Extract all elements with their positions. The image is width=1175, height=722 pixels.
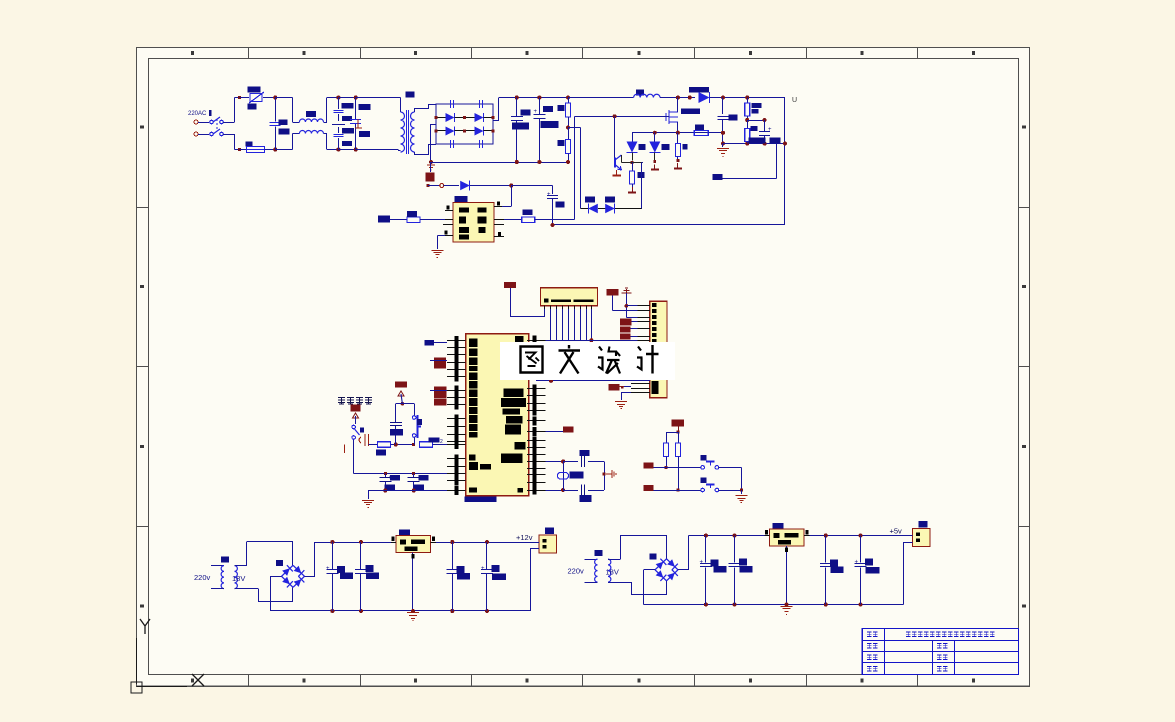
xtal cap C11 — [385, 473, 387, 477]
regulator U body — [399, 530, 410, 537]
MOSFET Q1 — [640, 116, 666, 118]
bridge positive out — [678, 569, 689, 571]
cap C13 — [563, 461, 578, 463]
svg-text:220AC: 220AC — [188, 111, 207, 117]
border reference ticks top/bottom — [248, 48, 250, 59]
top rail to inductor — [568, 97, 634, 99]
wire D8 junction to cap C9 — [511, 185, 552, 187]
svg-text:+12v: +12v — [516, 533, 533, 542]
zener ZD2 — [654, 133, 656, 143]
cap C9 electrolytic — [547, 195, 558, 197]
net label blocks left pins A — [434, 358, 446, 369]
reset cap C10 — [395, 426, 397, 445]
J2 pin name dashes — [652, 303, 657, 307]
caps common vertical — [604, 461, 606, 490]
transformer T1 primary — [401, 112, 405, 152]
MCU left pins — [447, 340, 466, 342]
J2 bottom gnd wire — [621, 392, 631, 394]
U2 ground — [437, 235, 445, 237]
bridge diamond B1 — [655, 559, 667, 570]
MCU left lower blobs — [469, 455, 476, 461]
power flag VCC top — [504, 282, 516, 288]
transformer T label — [595, 550, 603, 556]
svg-text:+: + — [700, 560, 704, 566]
optocoupler U2 label — [455, 196, 468, 203]
border reference ticks left/right — [137, 207, 149, 209]
junction top-left — [238, 96, 241, 99]
svg-text:+: + — [855, 560, 859, 566]
bulk cap C5 — [515, 96, 519, 100]
output rail — [436, 542, 530, 544]
watermark char 设 — [598, 347, 604, 370]
resistor R12 — [676, 443, 681, 457]
bulk cap C6 — [537, 96, 541, 100]
common-mode choke L1 — [292, 98, 294, 123]
bottom rail right section — [723, 143, 785, 145]
sheet border inner frame — [149, 58, 1019, 674]
bridge negative to bottom rail — [431, 124, 436, 126]
title block label 成绩 — [937, 667, 942, 671]
regulator gnd — [411, 609, 415, 613]
wire switch B to fuse node — [223, 134, 235, 136]
U2 pin name blobs — [459, 208, 469, 213]
bridge negative out — [644, 569, 656, 571]
net label right of MCU — [546, 431, 564, 433]
system switch S2 — [352, 425, 356, 429]
regulator U body — [773, 523, 784, 530]
button SW3 — [700, 478, 706, 484]
snubber R3 — [694, 130, 708, 135]
zener ZD1 — [632, 133, 634, 143]
svg-text:220v: 220v — [568, 567, 585, 576]
Q2 collector to zener rail — [621, 155, 623, 163]
mid junction of Y-caps — [332, 124, 345, 126]
bridge label — [276, 560, 283, 566]
switch S1 pole A — [198, 122, 209, 124]
feedback vertical pair — [574, 116, 576, 219]
U2 output resistor R9 — [504, 219, 522, 221]
R1 label — [558, 105, 565, 111]
C6 labels — [543, 106, 553, 112]
transformer secondary — [608, 559, 611, 582]
svg-text:U: U — [792, 97, 797, 104]
snubber C7 — [721, 96, 725, 100]
junction dots mid — [273, 96, 277, 100]
input terminal top — [194, 120, 198, 124]
regulator pins — [391, 542, 396, 544]
transformer T1 label — [406, 92, 415, 98]
watermark char 图 — [521, 347, 543, 373]
MCU center text blobs — [504, 389, 524, 398]
junction bottom-left — [238, 148, 241, 151]
watermark char 计 — [637, 347, 643, 370]
transistor Q2 — [614, 116, 616, 157]
small gnd right — [606, 470, 616, 478]
out cap 2 — [859, 534, 863, 538]
C2 label — [342, 103, 354, 109]
cap C smoothing 1 — [704, 534, 708, 538]
svg-text:+: + — [768, 127, 772, 133]
watermark white band — [500, 342, 675, 380]
bridge diamond B1 — [282, 565, 294, 576]
power flag system — [351, 405, 361, 412]
reset gnd cap mark — [365, 434, 369, 446]
diode D5 label — [689, 87, 709, 93]
net label blocks left pins B — [434, 387, 447, 399]
bleeder R2 — [566, 126, 570, 130]
cap C14 — [563, 490, 578, 492]
C4 ground mark — [355, 119, 362, 128]
polygon block dark red — [426, 173, 435, 182]
net label blocks right cluster — [620, 319, 632, 326]
reset resistor R10 — [369, 444, 378, 446]
title block label 班级 — [867, 655, 872, 659]
Q2 emitter gnd — [616, 170, 618, 175]
transformer T label — [221, 557, 229, 563]
svg-text:+: + — [534, 109, 538, 115]
xtal gnd — [362, 500, 374, 502]
Y-capacitor C3 bottom — [336, 148, 340, 152]
net label on top-left pin — [425, 340, 435, 346]
C3 label — [342, 128, 354, 134]
J2 pins left side — [638, 305, 650, 307]
bridge snubber caps — [450, 100, 452, 108]
cap C smoothing 2 — [733, 534, 737, 538]
bridge diode D2 — [475, 113, 484, 122]
title block title text — [906, 632, 911, 636]
svg-text:+: + — [547, 192, 551, 198]
secondary loop top — [620, 535, 622, 559]
xtal circuit right: vertical link — [546, 461, 564, 463]
crystal Y1 — [558, 473, 569, 480]
xtal lower wire — [383, 489, 387, 493]
wire secondary to bridge — [414, 109, 416, 112]
title block label 姓名 — [867, 644, 872, 648]
secondary loop bottom — [631, 582, 633, 595]
switch S1 pole B — [198, 134, 209, 136]
common-mode choke L1 label — [306, 111, 316, 117]
wire switch to varistor node — [223, 122, 235, 124]
reset button SW1 — [402, 403, 414, 405]
diode pair right link — [641, 163, 643, 209]
feedback tap label — [712, 174, 722, 180]
svg-text:18V: 18V — [232, 574, 245, 583]
bridge diode D3 — [446, 127, 455, 136]
out cap 2 — [485, 540, 489, 544]
switch link dashed — [216, 119, 218, 131]
J1 wires down — [550, 309, 552, 340]
connector wires — [904, 535, 913, 537]
wires to connector top pins — [626, 305, 637, 307]
secondary loop top — [246, 542, 248, 566]
D8 to opto pin — [511, 186, 513, 207]
resistor R11 — [664, 443, 669, 457]
J2 lower pins — [631, 383, 650, 385]
MCU pin name blobs left column — [469, 339, 478, 348]
xtal cap C12 — [413, 473, 415, 477]
transformer T1 core — [406, 110, 408, 154]
J1 pin text — [544, 299, 549, 303]
negative rail — [644, 604, 904, 606]
opto feed from bottom rail — [430, 162, 432, 172]
bridge internal rails — [436, 117, 446, 119]
feedback rail mid — [632, 132, 723, 134]
varistor RV1 — [240, 97, 249, 99]
positive rail — [689, 535, 770, 537]
R9 label — [523, 210, 533, 216]
R2 label — [558, 140, 565, 146]
feedback line from U — [552, 224, 786, 226]
bus wire upper — [589, 338, 593, 342]
output connector — [919, 521, 928, 528]
top connector J1 body — [541, 288, 598, 306]
transformer secondary — [235, 566, 238, 589]
bridge rectifier outline — [436, 104, 493, 144]
bridge positive out — [305, 576, 316, 578]
Y-capacitor C2 top — [336, 96, 340, 100]
MCU U3 body — [466, 334, 529, 496]
divider R5 — [745, 118, 749, 122]
MCU bottom navy bar — [465, 496, 497, 502]
regulator pins — [765, 535, 770, 537]
U2 pins left — [445, 210, 453, 212]
bridge output wire to top rail — [493, 120, 499, 122]
bridge negative out — [270, 576, 282, 578]
title block label 组别 — [937, 655, 942, 659]
bleeder R1 — [566, 96, 570, 100]
opto lower rail crossing — [574, 219, 576, 221]
varistor RV1 value label — [248, 104, 257, 110]
title block table — [862, 628, 1018, 674]
U2 pins right — [494, 206, 502, 208]
bridge label — [650, 554, 657, 560]
wire to transformer primary — [356, 97, 401, 99]
origin axis marker bottom-left — [136, 638, 138, 684]
C8 labels — [749, 138, 766, 144]
cap C smoothing 1 — [330, 540, 334, 544]
transformer primary — [585, 559, 598, 561]
resistor R7 — [632, 163, 634, 171]
regulator gnd — [785, 603, 789, 607]
inductor L2 — [634, 94, 660, 97]
title block label 学号 — [937, 644, 942, 648]
svg-text:+: + — [481, 566, 485, 572]
fuse F1 — [240, 149, 246, 151]
reset +5V flag — [395, 382, 407, 388]
secondary loop bottom — [258, 589, 260, 602]
optocoupler U2 body — [453, 203, 494, 243]
wire L2 to diode — [660, 97, 695, 99]
out cap 1 — [450, 540, 454, 544]
varistor RV1 label — [248, 87, 261, 93]
gate line — [575, 116, 670, 118]
positive rail — [315, 542, 396, 544]
net label key1 — [644, 463, 654, 469]
svg-text:+5v: +5v — [890, 527, 903, 536]
negative rail — [270, 610, 530, 612]
Q1 label — [681, 109, 700, 115]
bridge pins — [435, 116, 438, 119]
inductor L2 label — [636, 90, 644, 96]
connector J2 body — [650, 301, 667, 398]
title block label 标题 — [867, 632, 872, 636]
sheet border outer frame — [137, 48, 1030, 687]
net label key2 — [644, 485, 654, 491]
title block label 日期 — [867, 667, 872, 671]
svg-text:+: + — [388, 475, 391, 481]
wire choke to Y-caps — [324, 122, 328, 124]
transformer primary — [211, 565, 224, 567]
watermark char 文 — [559, 345, 581, 351]
C4 labels — [359, 104, 371, 110]
bus wire lower — [536, 380, 650, 382]
wire to opto diode — [428, 185, 440, 187]
bottom rail — [431, 162, 568, 164]
net label lower — [609, 384, 620, 391]
divider R4 — [745, 96, 749, 100]
diode D8 — [460, 181, 470, 191]
gnd under C7 — [722, 144, 724, 147]
diode D5 — [699, 92, 710, 103]
svg-text:2: 2 — [440, 439, 443, 445]
output cap C8 — [747, 120, 764, 122]
fuse F1 label — [245, 142, 252, 147]
X-capacitor C4 — [338, 97, 355, 99]
flag buttons VCC — [672, 420, 685, 427]
out cap 1 — [824, 534, 828, 538]
output connector — [545, 528, 554, 535]
C1 labels — [279, 120, 288, 126]
R8 labels — [378, 216, 390, 223]
resistor R6 — [677, 133, 679, 144]
flag right cluster A — [607, 289, 619, 296]
cap C smoothing 2 — [359, 540, 363, 544]
connector wires — [530, 542, 539, 544]
back-to-back diodes D6 D7 — [581, 208, 588, 210]
sheet interior fill — [137, 48, 1030, 687]
label 系统电源 — [338, 398, 345, 405]
C5 labels — [521, 110, 531, 116]
xtal row wire — [354, 473, 447, 475]
svg-text:220v: 220v — [194, 573, 211, 582]
wires from labels to connector — [632, 321, 638, 323]
bottom rail gnd mark — [427, 165, 435, 170]
input terminal bottom — [194, 132, 198, 136]
R10 to MCU — [412, 443, 415, 446]
J1 pins down — [544, 306, 546, 309]
bridge diode D4 — [475, 127, 484, 136]
power symbol right cluster — [622, 288, 632, 293]
svg-text:+: + — [326, 566, 330, 572]
transformer T1 secondary — [411, 112, 415, 152]
X-capacitor C1 — [275, 97, 292, 99]
bridge diode D1 — [446, 113, 455, 122]
buttons gnd — [741, 490, 743, 494]
MCU right pins upper — [527, 340, 546, 342]
U2 input resistor R8 — [390, 219, 407, 221]
output right vertical — [784, 98, 786, 226]
output rail — [810, 535, 904, 537]
button SW2 — [700, 455, 706, 461]
svg-text:18V: 18V — [606, 568, 619, 577]
MCU right pins lower — [527, 388, 546, 390]
